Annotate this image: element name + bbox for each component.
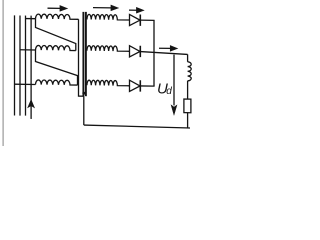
secondary winding w1 coil [87, 14, 130, 20]
tap wire to primary winding W3 [15, 83, 36, 85]
current arrow Id above output wire [159, 47, 170, 49]
wire L to R [187, 81, 189, 99]
delta lead from W1.right down to star descent [79, 19, 84, 96]
current arrow iVD1 above diode VD1 [129, 9, 137, 11]
junction dot at star point [82, 92, 85, 95]
current arrow i2 above secondary w1 [93, 7, 112, 9]
wire R to bottom return [187, 112, 189, 127]
cathode bus vertical [153, 20, 155, 86]
phase line c [25, 16, 27, 116]
secondary winding w3 coil [87, 80, 130, 86]
primary winding W1 coil [36, 14, 79, 19]
current arrow i1 above W1 [48, 7, 61, 9]
fourth supply line with current arrow (up) [30, 16, 32, 119]
diode VD2 [130, 46, 141, 57]
secondary winding w2 coil [87, 46, 130, 52]
svg-text:d: d [166, 86, 172, 97]
bottom return wire [84, 125, 190, 128]
delta link W2.left to W3.right [36, 50, 78, 85]
tap wire to primary winding W2 [20, 49, 36, 51]
transformer core [82, 12, 84, 96]
tap wire to primary winding W1 [26, 18, 36, 20]
phase line b [19, 15, 21, 115]
inductor L (load) [188, 62, 192, 81]
wire VD3 cathode to bus [140, 85, 154, 87]
wire VD2 cathode to load (output wire) [140, 52, 187, 55]
diode VD1 [130, 14, 141, 25]
primary winding W3 coil [36, 80, 78, 85]
load column top wire [187, 54, 189, 61]
left gray border line [2, 0, 4, 146]
primary winding W2 coil [36, 45, 76, 50]
delta link W1.left to W2.right [36, 19, 76, 51]
wire VD1 cathode to bus [140, 19, 154, 21]
voltage arrow Ud (down) [173, 55, 175, 106]
diode VD3 [130, 80, 141, 91]
star-point descent wire [83, 96, 85, 125]
resistor R (load) [184, 99, 191, 113]
phase line a [14, 15, 16, 115]
